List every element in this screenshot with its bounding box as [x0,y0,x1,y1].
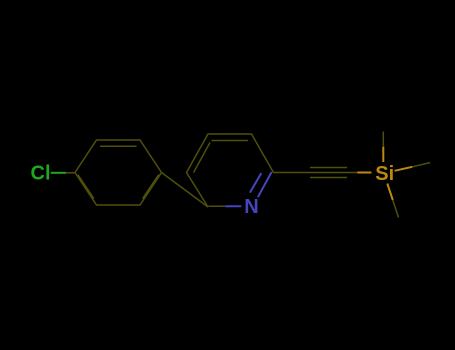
bond alkyne-Si gold half [357,172,371,174]
methyl top dark half [382,132,384,147]
methyl right gold half [395,167,413,171]
svg-text:Cl: Cl [31,163,51,185]
svg-text:N: N [244,196,258,218]
benzene ring (4-chlorophenyl), dark skeleton [75,140,162,205]
bond N-C blue half [225,205,241,207]
bond Cl-ring, green half [51,172,66,174]
double bond C=N inner blue line [250,173,261,193]
alkyne single bond ring-C [274,172,311,174]
pyridine ring, dark skeleton part [187,134,274,207]
alkyne triple bond C#C [310,168,347,178]
biaryl bond phenyl-pyridine [162,173,209,208]
methyl top gold half [382,147,384,162]
bond C-Si dark half [347,172,357,174]
svg-text:Si: Si [375,163,394,185]
methyl bottom gold half [387,184,393,201]
methyl bottom dark half [393,200,399,217]
bond Cl-ring, dark half [66,172,75,174]
double bond C=N outer blue line [258,172,272,197]
methyl right dark half [412,163,430,167]
bond N-C dark half [209,205,226,207]
